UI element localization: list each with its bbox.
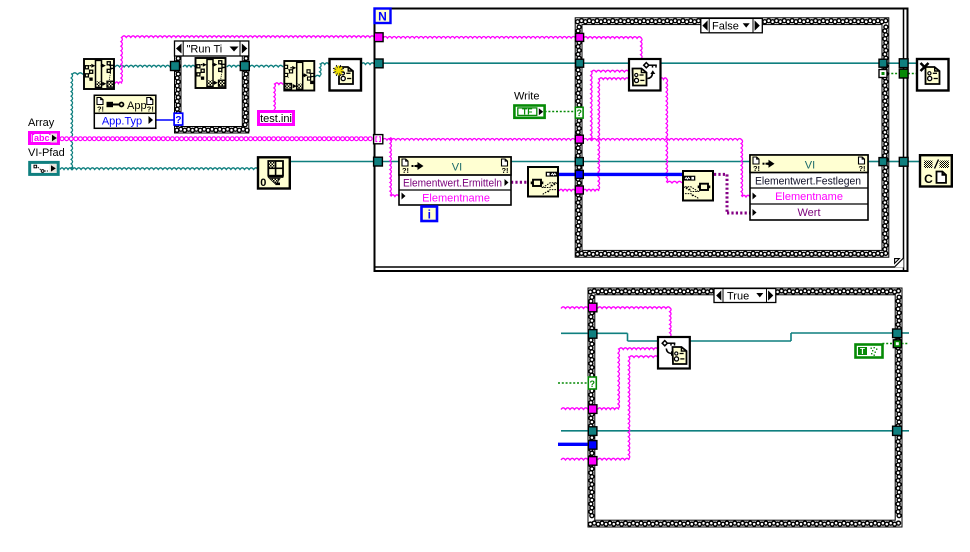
- svg-text:App.Typ: App.Typ: [102, 116, 142, 128]
- constant True T: [856, 345, 883, 358]
- wire string icon1 out to top row: [115, 82, 122, 84]
- invoke node Elementwert.Festlegen: [750, 155, 868, 220]
- wire refnum True stub1: [561, 332, 588, 334]
- wire bool Write to selector: [545, 111, 576, 113]
- for loop corner fold: [894, 258, 903, 267]
- wire bool True T const: [882, 343, 893, 345]
- svg-text:Wert: Wert: [797, 207, 820, 219]
- wire refnum True tunnel to writekey: [598, 332, 628, 334]
- icon write-key: [658, 337, 690, 369]
- wire string top row inside loop: [383, 37, 576, 39]
- tunnel case refnum out: [879, 59, 887, 67]
- wire refnum to C icon: [887, 161, 900, 163]
- tunnel True i16: [588, 441, 597, 450]
- wire string test.ini to icon3: [274, 84, 276, 111]
- junction path wire: [70, 166, 74, 170]
- svg-text:TF: TF: [522, 106, 532, 116]
- svg-text:VI: VI: [805, 159, 815, 171]
- for loop count terminal N: [375, 9, 391, 24]
- svg-text:Array: Array: [28, 117, 55, 129]
- for loop border: [375, 9, 908, 272]
- icon open-config-data: [330, 59, 362, 91]
- svg-text:VI-Pfad: VI-Pfad: [28, 147, 65, 159]
- svg-text:N: N: [378, 10, 387, 24]
- tunnel case array in: [575, 135, 583, 143]
- wire bool True selector stub: [558, 382, 588, 384]
- wire bool case out to close icon: [888, 73, 900, 75]
- tunnel loop refnum2 out: [899, 157, 908, 166]
- wire string True stub1: [561, 307, 588, 309]
- wire path VI-Pfad out: [60, 168, 72, 170]
- case False label bar: [701, 18, 763, 32]
- wire string-array Array control to loop: [60, 137, 64, 141]
- constant test.ini: [259, 112, 294, 125]
- svg-text:VI: VI: [452, 162, 462, 174]
- svg-text:Write: Write: [514, 91, 539, 103]
- wire string True tunnel3 to writekey: [598, 458, 630, 460]
- icon open-vi-refs 1: [84, 59, 114, 89]
- wire refnum loop to invoke1: [383, 161, 400, 163]
- tunnel loop bool out: [899, 69, 908, 78]
- wire string True tunnel1 to writekey: [598, 307, 671, 309]
- svg-text:Elementname: Elementname: [775, 191, 843, 203]
- tunnel loop refnum out: [899, 59, 908, 68]
- wire variant invoke1 to fromvariant: [511, 181, 527, 184]
- wire refnum inside False case to readkey: [583, 62, 629, 64]
- tunnel True refnum2: [588, 427, 597, 436]
- tunnel loop array auto-index: [374, 135, 383, 144]
- svg-text:False: False: [712, 21, 739, 33]
- wire refnum indexarray to loop: [290, 161, 374, 163]
- tunnel RunTi right: [240, 62, 249, 71]
- tunnel True refnum2 out: [893, 426, 902, 435]
- icon close-vi-refs (mirrored): [284, 61, 314, 91]
- case True border: [588, 288, 902, 527]
- wire refnum True writekey to right: [690, 340, 791, 342]
- icon flattened-string-to-variant: [683, 171, 713, 201]
- selector terminal RunTi: [174, 113, 183, 125]
- selector terminal True: [588, 377, 596, 389]
- tunnel case string in: [576, 33, 584, 41]
- wire variant tovariant to invoke2 Wert: [714, 173, 727, 176]
- wire string readkey out to tovariant: [660, 78, 667, 80]
- wire string to invoke2 Elementname: [741, 139, 743, 196]
- svg-text:i: i: [428, 207, 431, 221]
- wire string to invoke1 Elementname: [390, 139, 392, 195]
- svg-text:?: ?: [576, 108, 582, 118]
- tunnel case refnum2 in: [575, 158, 583, 166]
- control VI-Pfad path: [30, 162, 59, 174]
- tunnel True refnum1 out: [893, 329, 902, 338]
- icon open-vi-refs 2 (in case): [196, 58, 226, 88]
- svg-text:T: T: [860, 347, 865, 356]
- tunnel loop refnum2 in: [374, 157, 383, 166]
- tunnel case refnum2 out: [879, 158, 887, 166]
- icon close-config-data: [917, 59, 949, 91]
- wire refnum invoke2 to case right: [868, 161, 879, 163]
- tunnel True bool out: [893, 340, 901, 348]
- wire i16array case to tovariant: [583, 173, 682, 176]
- control Array string[]: [30, 133, 59, 144]
- icon read-key: [629, 59, 661, 91]
- wire string-array inside case: [583, 139, 742, 141]
- wire path branch up to open-ref: [71, 74, 73, 169]
- icon config-to-string C: [920, 155, 952, 186]
- selector terminal False: [575, 107, 583, 118]
- svg-text:abc: abc: [34, 133, 50, 143]
- wire string True tunnel2 to writekey: [598, 408, 619, 410]
- tunnel case i16 in: [575, 170, 583, 178]
- wire refnum out of loop to close icon: [887, 62, 900, 64]
- svg-text:?!: ?!: [97, 105, 104, 114]
- wire string True stub3: [561, 458, 588, 460]
- wire path openconfig to loop: [361, 63, 375, 65]
- case False border: [575, 18, 889, 257]
- wire path icon3 to openconfig: [315, 75, 320, 77]
- tunnel case bool out hollow: [879, 70, 887, 78]
- icon index-array: [258, 157, 290, 188]
- tunnel loop string in: [374, 33, 383, 42]
- wire path icon1 to RunTi case: [115, 65, 175, 67]
- case RunTi border: [175, 56, 249, 133]
- tunnel case string2 in: [575, 186, 583, 194]
- wire refnum row top inside loop: [383, 62, 576, 64]
- svg-text:Elementname: Elementname: [422, 192, 490, 204]
- property node App: [94, 95, 156, 128]
- svg-text:True: True: [727, 290, 749, 302]
- wire string branch up to readkey key input: [591, 71, 593, 139]
- svg-text:0: 0: [260, 177, 266, 189]
- svg-text:?!: ?!: [402, 166, 409, 175]
- case True label bar: [714, 289, 776, 303]
- tunnel loop refnum in: [374, 59, 383, 68]
- svg-text:?!: ?!: [858, 164, 865, 173]
- svg-text:C: C: [924, 172, 933, 186]
- svg-text:?!: ?!: [147, 105, 154, 114]
- wire refnum True right stub: [902, 332, 910, 334]
- tunnel True string3: [588, 457, 597, 466]
- invoke node Elementwert.Ermitteln: [399, 157, 511, 205]
- wire string case top to readkey: [583, 37, 641, 39]
- constant Write TF: [514, 106, 544, 118]
- svg-text:App: App: [127, 100, 147, 112]
- svg-text:Elementwert.Festlegen: Elementwert.Festlegen: [755, 175, 861, 187]
- wire i16array fromvariant to case: [559, 173, 575, 176]
- wire refnum True row2: [561, 430, 588, 432]
- tunnel True string2: [588, 405, 597, 414]
- wire i16 True stub: [558, 443, 588, 446]
- svg-text:?: ?: [175, 115, 181, 126]
- svg-text:?!: ?!: [501, 166, 508, 175]
- wire refnum invoke1 to case: [511, 161, 575, 163]
- wire string tunnel to readkey default input: [583, 189, 599, 191]
- junction string-array case: [589, 137, 594, 142]
- wire string top row to loop: [122, 36, 375, 38]
- svg-text:"Run Ti: "Run Ti: [187, 44, 223, 56]
- icon variant-to-flattened-string: [528, 167, 558, 197]
- tunnel RunTi left: [171, 62, 180, 71]
- wire string fromvariant out to case tunnel: [559, 189, 575, 191]
- wire refnum case to invoke2: [583, 161, 750, 163]
- wire path RunTi to icon3: [227, 65, 241, 67]
- svg-text:Elementwert.Ermitteln: Elementwert.Ermitteln: [403, 178, 502, 190]
- iteration terminal i: [422, 207, 438, 222]
- case RunTi label bar: [175, 41, 249, 56]
- svg-text:?: ?: [590, 379, 596, 389]
- svg-text:?!: ?!: [753, 164, 760, 173]
- tunnel True refnum1: [588, 330, 597, 339]
- svg-text:test.ini: test.ini: [260, 113, 292, 125]
- wire path inside RunTi: [183, 65, 195, 67]
- tunnel True string1: [588, 303, 597, 312]
- wire refnum readkey to right border: [660, 62, 879, 64]
- wire string-array inside loop: [383, 139, 576, 141]
- tunnel case refnum in: [576, 59, 584, 67]
- wire int App.Typ to selector: [156, 119, 174, 121]
- wire string True stub2: [561, 408, 588, 410]
- junction string-array: [389, 137, 394, 142]
